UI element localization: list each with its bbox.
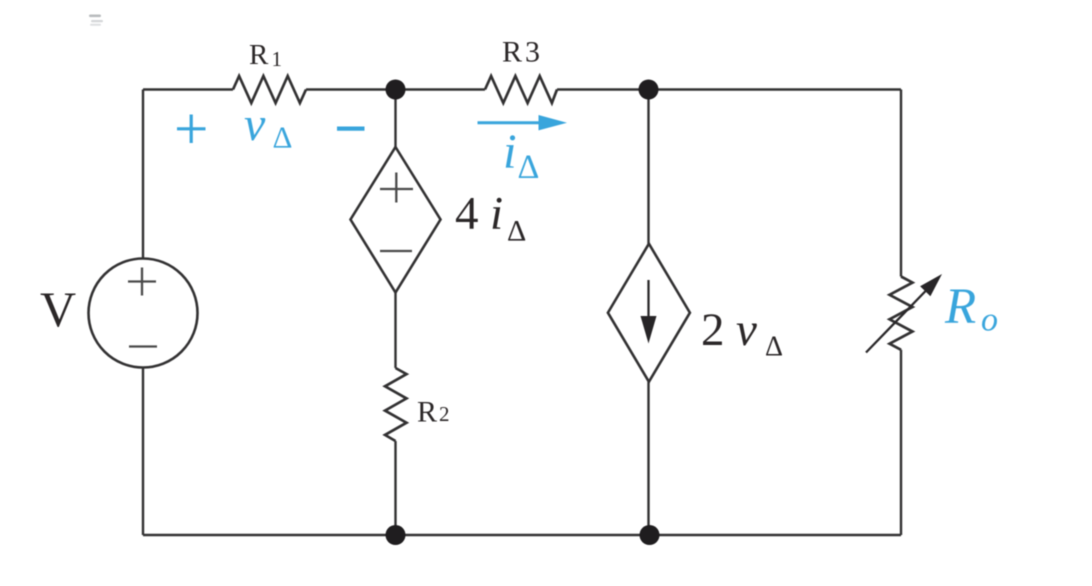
resistor R1: [233, 76, 306, 103]
wire right rail upper: [900, 90, 902, 277]
arrow through variable resistor Ro: [866, 289, 928, 353]
resistor R3: [485, 76, 557, 103]
wire right rail lower: [900, 350, 902, 535]
plus sign of source V: [128, 268, 156, 296]
minus sign of 4iD: [380, 250, 412, 252]
blue current arrow iD: [478, 121, 546, 124]
svg-text:i: i: [503, 124, 517, 179]
blue plus annotation: [177, 115, 206, 144]
svg-text:V: V: [40, 281, 76, 337]
svg-text:Δ: Δ: [518, 149, 540, 186]
wire left rail lower: [142, 368, 144, 536]
svg-text:4: 4: [455, 188, 479, 240]
svg-text:o: o: [981, 302, 998, 339]
wire bottom horizontal: [143, 534, 901, 536]
svg-text:R: R: [417, 396, 437, 429]
svg-text:R: R: [502, 36, 522, 69]
plus sign of 4iD: [380, 173, 413, 203]
svg-text:Δ: Δ: [273, 120, 293, 155]
wire top-left horizontal: [143, 88, 233, 90]
svg-text:1: 1: [272, 47, 283, 71]
svg-text:Δ: Δ: [765, 332, 783, 363]
svg-text:3: 3: [525, 36, 540, 69]
wire from node B to current source: [647, 90, 649, 244]
svg-text:2: 2: [439, 402, 450, 426]
svg-text:Δ: Δ: [507, 215, 526, 248]
wire left rail upper: [142, 90, 144, 259]
wire from 4iD to R2: [394, 293, 396, 369]
resistor R2: [385, 368, 407, 441]
svg-text:R: R: [249, 39, 269, 71]
blue minus annotation: [337, 127, 365, 131]
svg-text:v: v: [244, 98, 266, 151]
wire from R2 to bottom: [394, 441, 396, 535]
svg-text:i: i: [490, 188, 503, 240]
minus sign of source V: [129, 345, 157, 347]
node B top right-middle: [639, 80, 659, 100]
dependent voltage source 4iD diamond: [351, 147, 441, 293]
wire top-mid horizontal: [306, 88, 485, 90]
dependent current source 2vD diamond: [608, 244, 690, 382]
voltage source V: [89, 259, 198, 368]
wire top-right horizontal: [557, 88, 901, 90]
node D bottom right-middle: [640, 525, 660, 545]
faint smudge top left: [89, 15, 101, 18]
wire from node A to dependent source: [394, 90, 396, 148]
wire from 2vD to bottom: [647, 382, 649, 535]
node C bottom middle: [386, 525, 406, 545]
variable resistor Ro: [890, 277, 913, 350]
svg-text:R: R: [944, 279, 976, 335]
node A top middle: [386, 80, 406, 100]
svg-text:2: 2: [701, 304, 725, 356]
svg-text:v: v: [736, 304, 757, 356]
arrow inside 2vD: [647, 280, 649, 322]
